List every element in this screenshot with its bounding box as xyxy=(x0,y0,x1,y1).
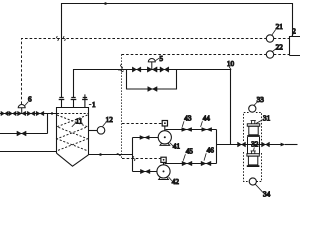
break squiggles at crossings xyxy=(57,36,136,160)
instrument circle 21 xyxy=(266,35,273,42)
valve line1 a xyxy=(1,111,8,116)
label 41 xyxy=(170,143,173,146)
svg-text:1: 1 xyxy=(92,101,96,109)
pump 42 motor 40 xyxy=(163,162,165,164)
svg-text:43: 43 xyxy=(184,114,192,122)
vessel packing zigzag 11 xyxy=(57,114,88,151)
svg-text:22: 22 xyxy=(276,43,284,51)
wire pump 42 discharge xyxy=(165,163,217,165)
wire bypass loop xyxy=(127,70,177,90)
vessel 1 tower walls xyxy=(57,108,89,155)
valve line2 xyxy=(17,131,26,136)
label 10 xyxy=(229,67,231,70)
svg-text:32: 32 xyxy=(251,140,259,148)
canister 31 stubs xyxy=(248,137,260,145)
wire middle nozzle feed / valve line 10 xyxy=(74,70,231,145)
dotted control vertical xyxy=(121,55,123,159)
svg-text:46: 46 xyxy=(207,146,215,154)
instrument circle 34 xyxy=(249,178,256,185)
svg-text:33: 33 xyxy=(257,96,265,104)
valve 46 xyxy=(201,161,211,166)
label 32 xyxy=(253,147,256,150)
wire filter feed line xyxy=(217,144,281,146)
valve 43 xyxy=(182,128,192,132)
instrument circle 12 xyxy=(89,130,98,132)
valve 5 upstream xyxy=(132,67,141,72)
pump 41 motor 40 xyxy=(164,126,166,131)
valve line1 c xyxy=(27,111,34,116)
svg-text:21: 21 xyxy=(276,23,284,31)
wire vessel outlet main line xyxy=(89,154,133,156)
svg-text:31: 31 xyxy=(263,114,271,122)
pump 42 base xyxy=(159,177,169,179)
dashed circle22 to box2 xyxy=(274,54,290,56)
label 43 xyxy=(182,121,184,127)
canister 31 xyxy=(251,121,256,124)
svg-text:12: 12 xyxy=(106,116,114,124)
label 12 xyxy=(103,122,106,126)
dashed line valve6 actuator to circle21 xyxy=(22,39,290,159)
wire pump 41 discharge xyxy=(166,129,217,131)
node junction dot on top line xyxy=(104,2,107,5)
wire left inlet line 1 xyxy=(0,113,57,115)
svg-text:34: 34 xyxy=(263,190,271,198)
control valve 6 xyxy=(18,111,26,116)
svg-text:41: 41 xyxy=(173,143,181,151)
wire left line 3 xyxy=(0,151,57,153)
wire pump 41 suction xyxy=(133,137,159,139)
wire pump manifold vertical xyxy=(132,138,134,172)
dashed line to circle22 xyxy=(122,54,267,56)
svg-text:6: 6 xyxy=(28,95,32,103)
node dot on outlet line xyxy=(99,153,102,156)
wire pump 42 suction xyxy=(133,171,158,173)
valve filter outlet xyxy=(262,142,270,147)
nozzle stems xyxy=(62,94,85,107)
label 46 xyxy=(204,153,206,160)
valve pump41 suction xyxy=(140,136,149,140)
pump 41 casing xyxy=(158,131,171,144)
canister 32 stubs xyxy=(248,145,260,154)
arrow product outlet xyxy=(281,143,286,147)
svg-text:10: 10 xyxy=(227,60,235,68)
paper grain overlay xyxy=(0,0,300,200)
label 5 xyxy=(156,58,160,60)
label 6 xyxy=(25,102,29,106)
valve pump42 suction xyxy=(140,169,150,173)
pump 41 base xyxy=(160,143,170,145)
label 42 xyxy=(169,177,172,181)
svg-text:45: 45 xyxy=(186,147,194,155)
node junction dot on line 1 xyxy=(51,112,53,114)
analyzer box 2 xyxy=(290,37,301,56)
canister 32 xyxy=(251,151,256,154)
valve filter inlet xyxy=(238,142,246,147)
instrument circle 22 xyxy=(266,51,273,58)
svg-text:42: 42 xyxy=(172,178,180,186)
valve bypass xyxy=(148,87,157,92)
control valve 5 xyxy=(147,67,157,72)
label 31 xyxy=(256,120,263,124)
label 1 xyxy=(89,104,92,106)
label 44 xyxy=(201,121,203,127)
svg-text:11: 11 xyxy=(76,118,83,126)
dashed to pump41 motor xyxy=(122,123,162,125)
wire branch vertical line1-line2 xyxy=(47,114,49,134)
dashed sampling loop 34 xyxy=(244,152,262,182)
valve line1 d xyxy=(36,111,44,116)
label 45 xyxy=(183,154,185,161)
valve 5 downstream xyxy=(160,67,169,72)
svg-text:44: 44 xyxy=(203,114,211,122)
svg-text:5: 5 xyxy=(159,55,163,63)
nozzle caps on vessel top xyxy=(59,98,88,100)
wire discharge header vertical xyxy=(216,130,218,164)
valve 44 xyxy=(202,128,212,132)
svg-text:2: 2 xyxy=(292,28,296,36)
pump 42 casing xyxy=(157,165,170,178)
wire left line 2 xyxy=(0,133,48,135)
wire top recycle line xyxy=(62,4,293,98)
instrument circle 33 xyxy=(249,105,256,112)
dashed circle21 to box2 xyxy=(274,38,290,40)
valve 45 xyxy=(182,161,192,166)
valve line1 b xyxy=(9,111,16,116)
dashed sampling loop 33 xyxy=(244,113,262,182)
dashed to pump42 motor xyxy=(122,158,161,160)
label 11 xyxy=(72,123,76,127)
vessel 1 cone bottom xyxy=(57,153,89,166)
